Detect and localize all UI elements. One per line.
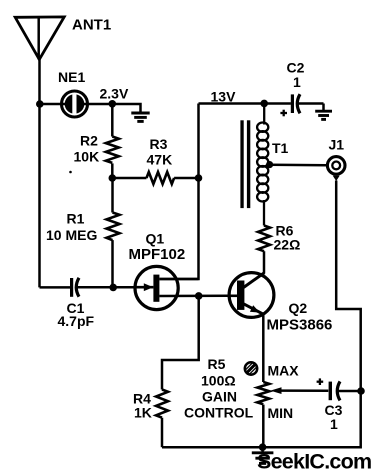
transistor Q2 MPS3866	[229, 273, 274, 318]
inductor T1 winding	[257, 104, 268, 226]
speck artifact	[69, 171, 72, 174]
node 13V/coil top	[260, 100, 268, 108]
wire NE1 to 2.3V node	[87, 103, 112, 106]
potentiometer R5	[257, 382, 269, 404]
svg-text:100Ω: 100Ω	[201, 373, 236, 389]
svg-text:MPS3866: MPS3866	[267, 317, 333, 334]
transistor Q1 MPF102	[135, 266, 229, 309]
wire C1 left	[40, 286, 71, 289]
wire node to NE1	[40, 103, 62, 106]
svg-text:MPF102: MPF102	[129, 246, 186, 263]
wire R1 bottom	[111, 240, 114, 287]
svg-text:MIN: MIN	[268, 405, 294, 421]
node R2/R1/R3	[109, 174, 117, 182]
wire node to R3	[112, 177, 146, 180]
jack J1	[327, 157, 345, 181]
node coil tap	[266, 161, 273, 168]
wire 13V rail vertical down to Q1 drain	[160, 104, 199, 280]
svg-text:MAX: MAX	[268, 363, 300, 379]
resistor R2	[106, 137, 119, 163]
svg-text:GAIN: GAIN	[202, 389, 237, 405]
svg-text:SeekIC.com: SeekIC.com	[257, 450, 371, 474]
wire R1 top	[111, 178, 114, 213]
ground (bottom)	[252, 447, 274, 463]
svg-text:T1: T1	[272, 140, 289, 156]
ground (top left)	[131, 113, 149, 121]
node B Q1 source junction	[195, 292, 203, 300]
svg-text:47K: 47K	[147, 152, 173, 168]
svg-text:CONTROL: CONTROL	[184, 405, 254, 421]
svg-text:NE1: NE1	[58, 69, 85, 85]
pot wiper arrow	[270, 387, 328, 394]
svg-text:13V: 13V	[211, 89, 237, 105]
resistor R4	[156, 390, 168, 418]
wire 2.3V node to ground stub	[112, 104, 140, 112]
ground (right of C2)	[315, 104, 332, 120]
node C3 right	[357, 387, 365, 395]
wire 2.3V node down to R2	[111, 104, 114, 137]
plus sign C2	[280, 110, 287, 117]
wire C1 right to Q1 gate	[76, 286, 136, 289]
screwdriver adjust symbol	[245, 362, 257, 374]
svg-text:R2: R2	[80, 133, 98, 149]
wire antenna feed down	[38, 59, 41, 287]
svg-text:2.3V: 2.3V	[100, 86, 129, 102]
svg-text:1: 1	[293, 74, 301, 90]
wire tap to J1	[270, 164, 327, 167]
svg-text:ANT1: ANT1	[72, 17, 111, 34]
svg-text:R3: R3	[150, 136, 168, 152]
wire Q2 emitter down to pot	[262, 314, 265, 382]
svg-text:J1: J1	[329, 137, 345, 153]
svg-text:1K: 1K	[134, 405, 152, 421]
svg-text:1: 1	[330, 416, 338, 432]
node antenna/NE1 junction	[36, 100, 44, 108]
svg-text:10K: 10K	[74, 149, 100, 165]
wire 13V horizontal	[199, 102, 291, 105]
capacitor C1	[70, 278, 79, 297]
transformer T1 core	[240, 120, 243, 208]
svg-text:4.7pF: 4.7pF	[58, 313, 95, 329]
resistor R1	[107, 213, 120, 241]
capacitor C3	[329, 381, 361, 400]
wire R3 to node A	[174, 177, 198, 180]
node bottom ground	[259, 443, 267, 451]
wire pot bottom to rail	[262, 405, 265, 448]
wire node B down-jog to R4	[162, 296, 199, 390]
wire R4 bottom to rail	[161, 418, 164, 448]
svg-text:Q2: Q2	[289, 300, 308, 316]
node A (R3 right / 13V rail)	[195, 174, 203, 182]
node C1/R1 junction	[109, 284, 117, 292]
plus sign C3	[317, 378, 324, 385]
svg-text:10 MEG: 10 MEG	[46, 227, 97, 243]
svg-text:Q1: Q1	[146, 231, 165, 247]
neon lamp NE1	[62, 91, 88, 117]
wire R6 to Q2 collector	[263, 251, 266, 273]
svg-text:22Ω: 22Ω	[274, 237, 301, 253]
antenna ANT1	[15, 17, 64, 60]
resistor R3	[147, 172, 175, 184]
resistor R6	[258, 226, 270, 252]
node 2.3V	[109, 100, 117, 108]
capacitor C2	[291, 94, 324, 113]
svg-text:R1: R1	[67, 211, 85, 227]
wire R2 to node	[111, 163, 114, 178]
wire J1 down right rail	[162, 181, 361, 448]
svg-text:R5: R5	[208, 356, 226, 372]
